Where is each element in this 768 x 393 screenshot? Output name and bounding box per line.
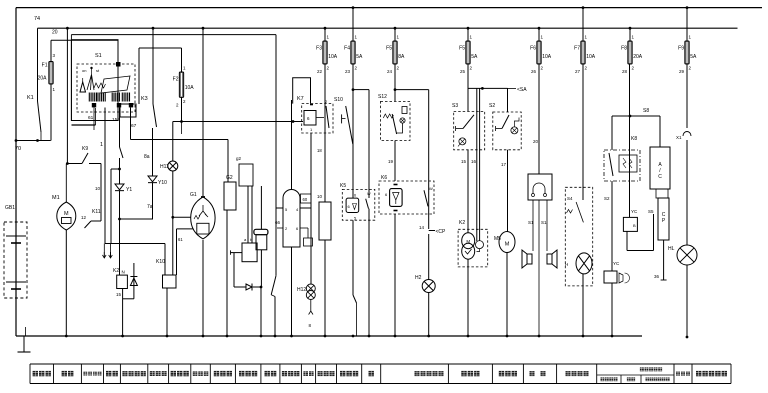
- svg-text:K5: K5: [340, 183, 346, 189]
- svg-text:10A: 10A: [586, 54, 596, 60]
- svg-text:W: W: [367, 192, 371, 196]
- svg-text:F5: F5: [459, 46, 465, 52]
- svg-text:10A: 10A: [328, 54, 338, 60]
- svg-text:on: on: [82, 68, 86, 73]
- svg-text:W: W: [429, 186, 433, 191]
- svg-text:10: 10: [317, 194, 323, 199]
- svg-text:19: 19: [388, 159, 394, 164]
- svg-text:S1: S1: [95, 53, 102, 59]
- svg-text:14: 14: [419, 225, 425, 230]
- svg-text:GB1: GB1: [5, 205, 15, 211]
- svg-text:K7: K7: [297, 96, 304, 102]
- svg-text:B: B: [633, 223, 636, 228]
- svg-text:Y1: Y1: [126, 187, 132, 193]
- svg-text:23: 23: [345, 69, 351, 74]
- svg-text:20: 20: [52, 30, 58, 36]
- svg-text:H12: H12: [297, 287, 306, 293]
- svg-text:K2: K2: [113, 268, 119, 274]
- svg-text:K6: K6: [381, 175, 387, 181]
- svg-text:S5: S5: [648, 209, 654, 214]
- svg-text:G1: G1: [190, 192, 197, 198]
- svg-text:20: 20: [533, 139, 539, 144]
- svg-text:61: 61: [178, 237, 183, 242]
- svg-text:K2: K2: [459, 220, 465, 226]
- svg-text:M1: M1: [52, 195, 60, 201]
- svg-text:F3: F3: [316, 46, 322, 52]
- svg-text:8a: 8a: [144, 154, 150, 160]
- svg-text:H11: H11: [160, 164, 169, 170]
- svg-text:20A: 20A: [633, 54, 643, 60]
- svg-text:74: 74: [34, 16, 40, 22]
- svg-text:H2: H2: [415, 275, 422, 281]
- svg-text:F2: F2: [173, 77, 179, 83]
- svg-text:12: 12: [81, 215, 87, 220]
- svg-text:S1: S1: [541, 220, 547, 225]
- svg-text:15: 15: [116, 292, 122, 297]
- svg-text:K3: K3: [141, 96, 148, 102]
- svg-text:<CP: <CP: [436, 229, 447, 235]
- svg-text:16: 16: [471, 159, 477, 164]
- svg-text:10A: 10A: [542, 54, 552, 60]
- svg-text:F4: F4: [344, 46, 350, 52]
- svg-text:27: 27: [575, 69, 581, 74]
- svg-text:M: M: [64, 211, 69, 217]
- svg-text:F8: F8: [621, 46, 627, 52]
- svg-text:g2: g2: [236, 156, 242, 161]
- svg-text:28: 28: [622, 69, 628, 74]
- svg-text:5A: 5A: [690, 54, 697, 60]
- svg-text:YC: YC: [613, 261, 620, 266]
- svg-text:67: 67: [131, 123, 137, 129]
- svg-text:60: 60: [303, 197, 308, 202]
- svg-text:C: C: [658, 174, 662, 180]
- svg-text:29: 29: [679, 69, 685, 74]
- svg-text:10A: 10A: [185, 85, 195, 91]
- svg-text:5A: 5A: [356, 54, 363, 60]
- svg-text:F1: F1: [42, 63, 48, 69]
- svg-text:F7: F7: [574, 46, 580, 52]
- svg-text:K8: K8: [631, 136, 637, 142]
- svg-text:S3: S3: [452, 103, 458, 109]
- svg-text:10: 10: [95, 186, 101, 191]
- svg-text:1: 1: [100, 142, 103, 148]
- svg-text:S10: S10: [334, 97, 343, 103]
- svg-text:22: 22: [317, 69, 323, 74]
- svg-text:M: M: [505, 242, 510, 248]
- svg-text:5A: 5A: [471, 54, 478, 60]
- svg-text:S4: S4: [567, 196, 573, 201]
- svg-text:H: H: [565, 262, 568, 267]
- svg-text:25: 25: [460, 69, 466, 74]
- svg-text:F9: F9: [678, 46, 684, 52]
- svg-text:7a: 7a: [147, 204, 153, 210]
- svg-text:S8: S8: [643, 108, 649, 114]
- svg-text:YC: YC: [631, 209, 638, 214]
- svg-text:24: 24: [387, 69, 393, 74]
- svg-text:N: N: [122, 270, 125, 275]
- svg-text:66: 66: [275, 220, 281, 225]
- svg-text:M5: M5: [494, 236, 501, 242]
- svg-text:8A: 8A: [398, 54, 405, 60]
- svg-text:K9: K9: [82, 146, 88, 152]
- svg-text:G2: G2: [226, 175, 233, 181]
- svg-text:70: 70: [15, 146, 21, 152]
- svg-text:26: 26: [531, 69, 537, 74]
- svg-text:F6: F6: [530, 46, 536, 52]
- svg-text:S2: S2: [604, 196, 610, 201]
- svg-text:K11: K11: [92, 209, 101, 215]
- svg-text:K1: K1: [27, 95, 34, 101]
- svg-text:18: 18: [317, 148, 322, 153]
- svg-text:X1: X1: [676, 135, 682, 140]
- svg-text:S12: S12: [378, 94, 387, 100]
- svg-text:36: 36: [654, 274, 660, 279]
- svg-text:HL: HL: [668, 246, 675, 252]
- svg-text:<SA: <SA: [517, 87, 527, 93]
- svg-text:5: 5: [354, 217, 356, 221]
- svg-text:S1: S1: [528, 220, 534, 225]
- svg-text:F5: F5: [386, 46, 392, 52]
- svg-text:Y10: Y10: [158, 180, 167, 186]
- svg-text:17: 17: [501, 162, 507, 167]
- svg-text:61: 61: [88, 115, 94, 121]
- svg-text:6: 6: [354, 194, 356, 198]
- svg-text:15: 15: [461, 159, 467, 164]
- svg-text:20A: 20A: [38, 76, 48, 82]
- svg-text:S2: S2: [489, 103, 495, 109]
- svg-text:K10: K10: [156, 259, 165, 265]
